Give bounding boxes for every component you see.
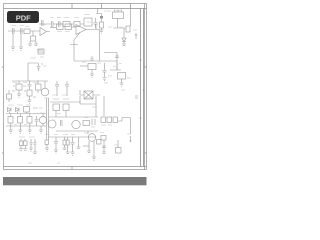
- ground G13: [9, 126, 13, 133]
- capacitor C3: [21, 28, 23, 34]
- ground G18: [23, 146, 27, 151]
- ground G0: [100, 30, 104, 33]
- label cluster mid: [37, 50, 44, 52]
- wire to middle row: [50, 27, 56, 29]
- bus y81: [12, 80, 48, 82]
- box with X center right: [80, 90, 100, 99]
- connector verticals left block: [9, 112, 43, 127]
- small box row B3: [113, 117, 118, 123]
- wire to opamp: [72, 26, 77, 28]
- wire y102 top: [50, 96, 96, 104]
- chain center x57: [55, 81, 59, 96]
- transistor Q3: [39, 116, 46, 123]
- ground G9: [103, 78, 107, 81]
- power bus vertical line V-: [143, 9, 145, 167]
- border zone tick bottom: [71, 167, 73, 170]
- resistor R32 w label: [53, 98, 59, 100]
- resistor R28: [18, 117, 23, 124]
- wire mid bus left: [8, 30, 40, 32]
- bus junction dots: [140, 60, 145, 118]
- wire y137: [49, 136, 97, 138]
- footer gray bar: [3, 177, 147, 185]
- capacitor C22: [61, 120, 63, 126]
- marks right of R36: [92, 119, 95, 125]
- diode D2: [16, 108, 20, 112]
- ground G16: [39, 126, 43, 133]
- diode chain x101.5: [101, 14, 103, 23]
- small box left: [7, 94, 12, 99]
- ground G20: [33, 148, 37, 154]
- diode D5 down: [122, 38, 126, 42]
- wire step right: [118, 118, 131, 122]
- small box row B1: [101, 117, 106, 123]
- chain C1 pair: [47, 138, 49, 140]
- wires under U4: [113, 19, 126, 29]
- ground G26: [77, 144, 81, 149]
- border frame right inner line: [144, 4, 146, 170]
- ground G25: [71, 152, 75, 155]
- capacitor C4: [59, 21, 61, 27]
- resistor R2: [24, 29, 30, 34]
- Q6 chains: [89, 141, 94, 157]
- capacitor C2: [52, 21, 54, 27]
- labels row left: [19, 136, 35, 138]
- capacitor C6 vertical: [94, 18, 98, 28]
- wire x130 down: [130, 118, 132, 135]
- wire step center right: [104, 53, 117, 62]
- labels under boxes: [101, 124, 112, 126]
- ground G3: [28, 41, 32, 46]
- chain C4: [71, 137, 75, 152]
- ground G17: [19, 146, 23, 151]
- border zone tick right: [145, 67, 147, 153]
- capacitor C12: [115, 56, 119, 58]
- ground G23: [63, 148, 67, 150]
- wire x104 down: [103, 96, 105, 116]
- wire x130 dot: [130, 136, 132, 141]
- resistor R34 w label: [63, 98, 69, 100]
- wire y99: [80, 90, 100, 95]
- chain C5: [78, 137, 80, 144]
- IC box U5: [88, 64, 96, 70]
- resistor R36: [83, 121, 90, 126]
- ground G4: [34, 41, 38, 46]
- resistor R16: [65, 24, 72, 30]
- IC box U4 pins: [113, 12, 124, 19]
- ground G12: [28, 96, 32, 103]
- diode D1: [8, 108, 12, 112]
- capacitor C14 chain: [103, 63, 107, 77]
- wire bus y126: [6, 125, 46, 127]
- wire from band left: [96, 9, 102, 14]
- ground G11: [17, 94, 21, 97]
- ground G21: [45, 148, 49, 151]
- ground G2: [19, 34, 23, 50]
- border frame outer: [4, 4, 147, 170]
- resistor R26: [8, 117, 13, 124]
- chain L2: [31, 139, 35, 142]
- resistor R10: [63, 22, 70, 27]
- wire y146: [83, 145, 89, 147]
- wire right cluster: [110, 62, 121, 70]
- capacitor C18 chain: [28, 81, 32, 90]
- border frame inner top line: [4, 8, 147, 10]
- op-amp U1: [76, 25, 86, 35]
- border frame inner bottom line: [4, 166, 147, 168]
- small box right: [116, 148, 122, 154]
- ground G10: [120, 79, 124, 86]
- chain center x67: [65, 81, 69, 96]
- resistor R18: [16, 84, 22, 90]
- resistor R4: [31, 36, 36, 41]
- wire bus y131: [56, 130, 98, 132]
- ground G29: [102, 152, 106, 154]
- chain C3 pair: [65, 137, 68, 140]
- transformer box T1: [84, 91, 93, 99]
- resistor R6 box: [38, 49, 44, 54]
- wire drops: [56, 111, 66, 118]
- label tick A: [135, 33, 138, 39]
- resistor R24: [24, 107, 30, 113]
- vertical rails center: [47, 98, 49, 138]
- ground G15: [28, 126, 32, 133]
- zener Z1: [100, 22, 104, 28]
- svg-text:PDF: PDF: [16, 13, 31, 22]
- junction dots bus: [30, 81, 38, 82]
- border zone tick top: [71, 4, 73, 9]
- wire loop bottom: [74, 61, 117, 70]
- title cells top right: [102, 4, 131, 9]
- capacitor C20: [35, 116, 39, 124]
- tiny label smudges: [12, 11, 137, 164]
- border zone tick left: [2, 67, 4, 153]
- label text row: [8, 104, 31, 106]
- resistor R20: [27, 90, 32, 96]
- small box right of Q6: [97, 140, 102, 145]
- IC box U2: [84, 18, 92, 26]
- PDF badge: [7, 11, 39, 23]
- chain C2: [54, 137, 58, 150]
- ground G24: [66, 148, 70, 154]
- ground G14: [18, 126, 22, 133]
- capacitor C8 on out: [95, 25, 98, 30]
- transistor Q4: [48, 120, 56, 128]
- wire top row: [39, 23, 84, 25]
- small box row B2: [107, 117, 112, 123]
- vertical x96: [95, 104, 97, 117]
- resistor R12: [74, 22, 80, 27]
- ground G28: [92, 157, 96, 160]
- wire opamp out + feedback: [70, 30, 100, 62]
- capacitor C1: [13, 28, 15, 34]
- small box right: [126, 26, 130, 32]
- right cluster bits: [101, 136, 106, 141]
- extra label marks: [14, 108, 43, 125]
- resistor R30: [27, 117, 32, 124]
- bus tick label: [135, 96, 138, 98]
- wire y66: [80, 65, 88, 67]
- transistor Q2: [41, 88, 49, 96]
- ground G19: [29, 148, 33, 151]
- ground G8: [90, 70, 94, 78]
- resistor R40: [118, 73, 126, 80]
- wire L mid-left: [28, 63, 38, 81]
- ground G5: [90, 56, 94, 61]
- polarized cap C16: [37, 63, 44, 71]
- ground G27: [87, 146, 91, 153]
- labels: [12, 86, 36, 97]
- transistor Q1: [40, 28, 50, 36]
- wire L right: [123, 28, 125, 38]
- ground G22: [54, 150, 58, 153]
- wire drops right: [130, 9, 132, 27]
- wire bus y113.5: [6, 113, 46, 115]
- ground G7: [122, 42, 126, 46]
- resistor R22: [36, 84, 42, 90]
- ground G1: [11, 34, 15, 50]
- junction node: [32, 31, 34, 36]
- wire bus y117: [49, 116, 99, 118]
- resistor R14: [57, 24, 64, 30]
- chain L1 resistor pair: [21, 139, 25, 141]
- capacitor C0 after badge: [42, 20, 44, 26]
- power bus vertical line V+: [140, 9, 142, 167]
- transistor Q6: [88, 134, 96, 142]
- transistor Q5: [72, 120, 80, 128]
